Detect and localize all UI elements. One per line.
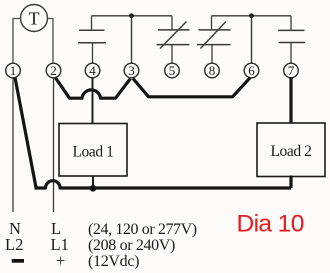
wire junction to terminal 3	[131, 16, 133, 64]
label L	[51, 219, 61, 238]
label (12Vdc)	[88, 253, 139, 270]
label Dia 10	[237, 211, 304, 238]
wire thermostat to terminal 1	[13, 19, 21, 64]
capacitor above terminal 7	[278, 16, 305, 63]
terminal 3	[124, 63, 139, 78]
node junction above terminal 6	[249, 13, 254, 18]
svg-text:1: 1	[10, 63, 17, 78]
label minus polarity	[12, 259, 24, 263]
svg-text:(24, 120 or 277V): (24, 120 or 277V)	[88, 221, 197, 238]
wire terminal 2 to terminal 3 with hop (bold)	[56, 78, 131, 98]
svg-text:4: 4	[89, 63, 96, 78]
svg-text:(12Vdc): (12Vdc)	[88, 253, 139, 270]
node junction Load 1 on bottom rail	[90, 185, 97, 192]
svg-text:3: 3	[128, 63, 135, 78]
load box Load 1	[59, 124, 127, 177]
contact above terminal 8	[197, 16, 231, 64]
wire right top rail	[212, 15, 292, 17]
svg-text:T: T	[29, 9, 40, 29]
svg-text:Dia 10: Dia 10	[237, 211, 304, 238]
terminal 7	[284, 63, 299, 78]
label L2	[5, 235, 23, 254]
terminal 6	[244, 63, 259, 78]
terminal 8	[205, 63, 220, 78]
wire Load 1 to bottom rail	[92, 176, 94, 189]
wire bottom rail with hop (bold)	[35, 181, 292, 188]
svg-text:Load 2: Load 2	[270, 143, 311, 160]
wire terminal 1 to N label	[12, 78, 14, 212]
terminal 1	[6, 63, 21, 78]
svg-text:(208 or 240V): (208 or 240V)	[88, 237, 175, 254]
terminal 5	[165, 63, 180, 78]
svg-text:+: +	[56, 251, 65, 270]
label L1	[51, 235, 69, 254]
thermostat T	[21, 5, 48, 32]
svg-text:8: 8	[209, 63, 216, 78]
wire thermostat to terminal 2	[48, 19, 54, 64]
svg-text:2: 2	[50, 63, 57, 78]
node junction above terminal 3	[129, 13, 134, 18]
terminal 4	[85, 63, 100, 78]
label plus polarity	[56, 251, 65, 270]
wire left top rail	[92, 15, 173, 17]
label (208 or 240V)	[88, 237, 175, 254]
capacitor above terminal 4	[78, 16, 106, 64]
load box Load 2	[257, 123, 325, 177]
label (24, 120 or 277V)	[88, 221, 197, 238]
wire junction to terminal 6	[251, 16, 253, 64]
wire terminal 3 to terminal 6 (bold)	[133, 78, 250, 97]
label N	[9, 219, 21, 238]
svg-text:L2: L2	[5, 235, 23, 254]
wire terminal 7 to Load 2 (bold)	[289, 77, 292, 123]
wire terminal 2 to L label	[53, 78, 55, 212]
svg-text:7: 7	[288, 63, 295, 78]
wire terminal 1 to bottom rail (bold)	[15, 78, 36, 188]
svg-text:5: 5	[169, 63, 176, 78]
wire terminal 4 to Load 1	[92, 78, 94, 124]
terminal 2	[46, 63, 61, 78]
contact above terminal 5	[157, 16, 190, 64]
svg-text:Load 1: Load 1	[72, 144, 113, 161]
svg-text:6: 6	[248, 63, 255, 78]
wire Load 2 to bottom rail (bold)	[289, 176, 292, 189]
